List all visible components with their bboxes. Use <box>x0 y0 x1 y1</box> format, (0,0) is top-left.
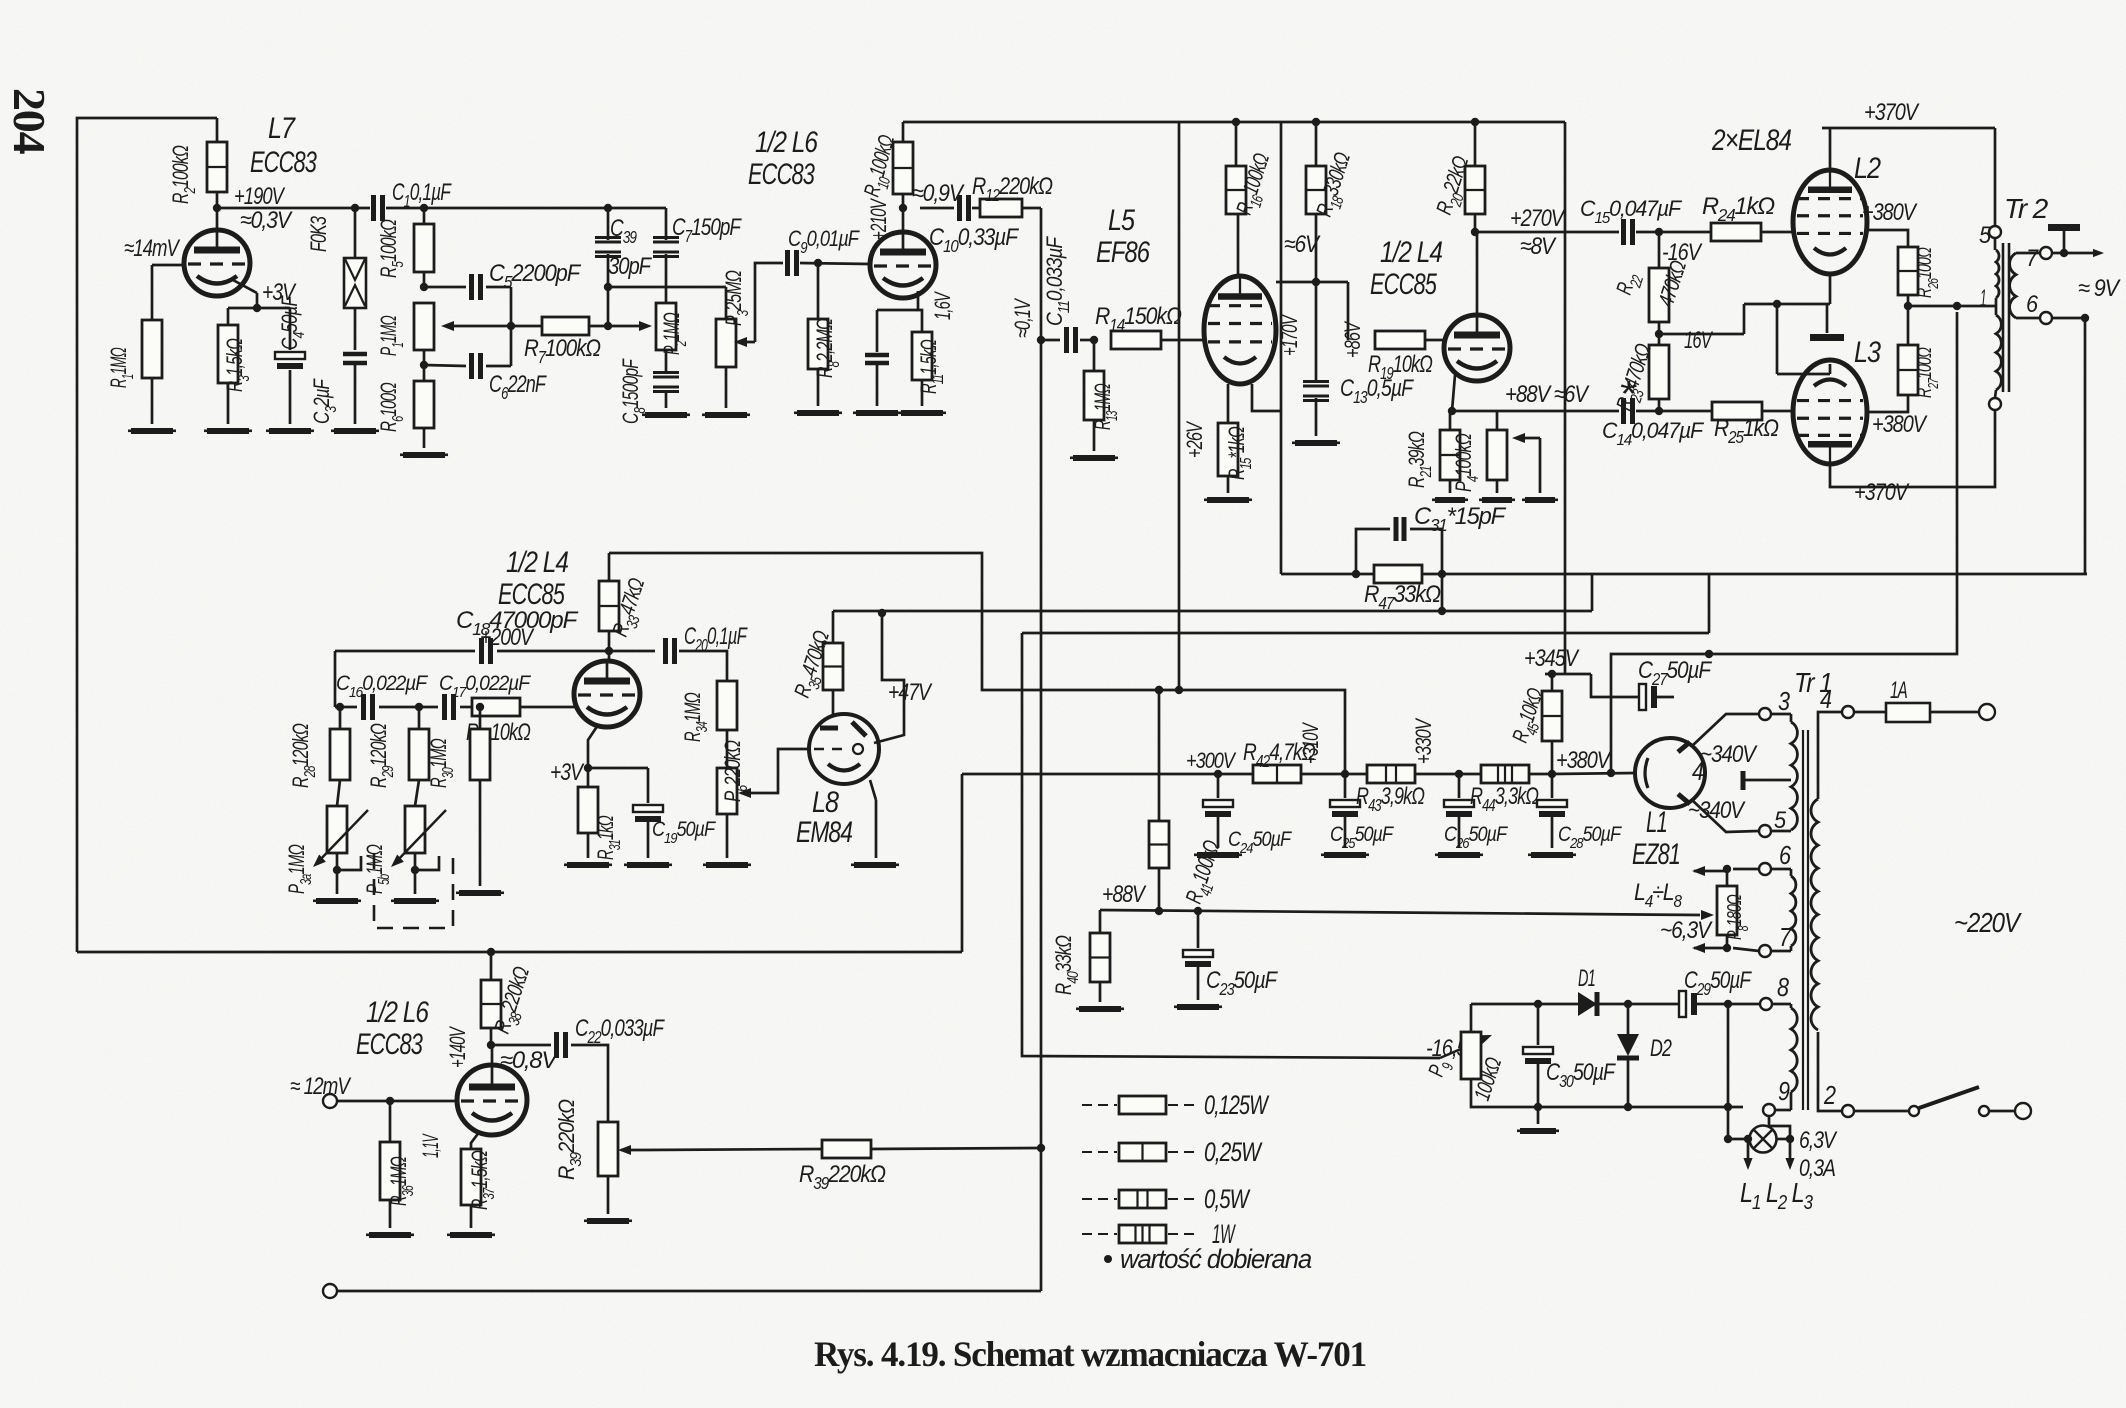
capacitor C7 <box>653 208 742 303</box>
legend 0,25W <box>1082 1137 1263 1167</box>
resistor R36 <box>380 1101 417 1228</box>
tube L4a <box>574 651 640 727</box>
svg-text:0,25W: 0,25W <box>1204 1137 1263 1167</box>
svg-text:3: 3 <box>1778 686 1790 716</box>
ground R31 <box>564 862 612 868</box>
svg-text:+270V: +270V <box>1510 205 1566 232</box>
svg-text:30pF: 30pF <box>608 253 652 280</box>
label L5 EF86 <box>1096 204 1150 269</box>
resistor R18 <box>1306 122 1361 286</box>
label 1/2L4 ECC85 mid <box>498 546 568 611</box>
resistor R39 series <box>799 1140 1041 1193</box>
terminal mains top <box>1979 704 1995 720</box>
svg-text:0,125W: 0,125W <box>1204 1090 1270 1120</box>
wire cathode L4a <box>550 725 598 786</box>
wire EF86 anode <box>1237 214 1240 276</box>
resistor R40 <box>1051 881 1147 1002</box>
ground P4 <box>1479 497 1558 503</box>
wire cathode line <box>1450 410 1619 413</box>
svg-text:≈0,1V: ≈0,1V <box>1010 297 1035 338</box>
capacitor C3 <box>309 308 367 424</box>
svg-text:1/2 L6: 1/2 L6 <box>366 996 429 1029</box>
capacitor C39 <box>595 208 652 291</box>
node +380V <box>1548 747 1612 778</box>
capacitor C10 <box>920 195 1019 256</box>
ground R21 <box>1432 497 1468 503</box>
wire left bus <box>77 118 217 952</box>
svg-text:+86V: +86V <box>1340 320 1365 358</box>
svg-text:204: 204 <box>4 88 55 155</box>
capacitor C25 <box>1330 774 1394 852</box>
svg-text:~340V: ~340V <box>1688 797 1746 824</box>
node +270V <box>1471 205 1566 260</box>
ground R37 <box>447 1232 495 1238</box>
label 1/2 L6 <box>748 126 818 191</box>
diode D1 <box>1578 965 1679 1016</box>
capacitor C17 <box>439 672 531 720</box>
capacitor C4 <box>275 295 308 424</box>
capacitor cathode bypass <box>865 310 889 406</box>
resistor R33 <box>599 553 655 651</box>
ground P6 <box>703 814 751 868</box>
wire -16.5V <box>1022 633 1494 1062</box>
ground C24 <box>1194 852 1242 858</box>
input terminal <box>290 1073 457 1108</box>
capacitor C20 <box>609 623 748 681</box>
capacitor C16 <box>336 672 438 720</box>
svg-text:+380V: +380V <box>1556 747 1612 774</box>
label L8 EM84 <box>796 786 852 849</box>
center tap 4 <box>1692 756 1791 790</box>
resistor R28 <box>288 707 350 788</box>
resistor R16 <box>1226 122 1280 219</box>
legend 0,125W <box>1082 1090 1270 1120</box>
legend 0,5W <box>1082 1184 1251 1214</box>
svg-text:2: 2 <box>1823 1080 1836 1110</box>
svg-text:8: 8 <box>1777 972 1789 1002</box>
svg-text:16V: 16V <box>1684 327 1713 354</box>
resistor R44 <box>1470 765 1539 815</box>
wire P9 top <box>1471 1000 1578 1032</box>
capacitor C26 <box>1444 774 1508 852</box>
svg-text:≈0,3V: ≈0,3V <box>240 207 293 234</box>
potentiometer P4 <box>1451 411 1540 493</box>
svg-text:+300V: +300V <box>1186 748 1237 773</box>
svg-text:≈14mV: ≈14mV <box>124 235 180 262</box>
transformer Tr2 <box>1979 193 2049 410</box>
resistor R10 <box>859 122 913 208</box>
Tr1 winding 8-9 <box>1772 1004 1797 1110</box>
resistor R12 <box>972 173 1053 217</box>
resistor R41 <box>1149 686 1230 915</box>
potentiometer P3a <box>284 780 368 894</box>
node +190V <box>213 183 293 234</box>
input common terminal <box>323 1284 1041 1298</box>
wire 611 line <box>833 574 1592 617</box>
output top <box>2048 224 2104 257</box>
terminal 6 <box>1733 840 1791 875</box>
svg-text:D2: D2 <box>1650 1035 1672 1062</box>
svg-text:+210V: +210V <box>866 198 891 240</box>
terminal 8 <box>1759 972 1789 1010</box>
lamp arrows <box>1743 1135 1794 1170</box>
Tr1 HT winding <box>1791 714 1797 830</box>
wire plate bus L7 <box>217 204 370 212</box>
ground R36 <box>366 1232 414 1238</box>
resistor R11 <box>912 332 947 406</box>
ground R8 <box>794 410 842 416</box>
wire tall bus 1179 <box>1178 122 1181 690</box>
Tr2 secondary <box>2010 245 2052 324</box>
resistor R42 <box>1243 739 1316 783</box>
capacitor C30 <box>1523 1004 1616 1107</box>
resistor R22 <box>1611 232 1703 322</box>
ground C13 <box>1292 440 1340 446</box>
ground C30 <box>1517 1107 1559 1134</box>
capacitor C29 <box>1679 967 1759 1107</box>
wire L2 plate top <box>1822 99 1995 170</box>
svg-text:+370V: +370V <box>1864 99 1920 126</box>
heater arrows L4-L8 <box>1634 866 1727 953</box>
capacitor C27 <box>1591 657 1712 710</box>
wire bias bottom <box>1471 1079 1743 1111</box>
svg-text:+26V: +26V <box>1182 420 1207 458</box>
resistor R8 <box>808 259 843 406</box>
potentiometer P9 <box>1423 1032 1506 1104</box>
capacitor C1 <box>374 179 452 221</box>
terminal 4 right <box>1820 684 1854 718</box>
node 16V <box>1655 304 1744 354</box>
wire CT <box>1908 302 1996 310</box>
wire EF86 g3 feedback <box>1252 122 1281 574</box>
wire +47V target <box>874 613 933 743</box>
terminal 3 <box>1759 686 1791 720</box>
label 1/2L4 ECC85 <box>1370 236 1442 301</box>
ground R3 <box>204 428 252 434</box>
label 1/2 L6 bottom <box>356 996 429 1061</box>
terminal 7 <box>1733 922 1792 957</box>
svg-text:≈8V: ≈8V <box>1520 233 1557 260</box>
top bus 122 <box>903 118 1565 126</box>
wire L3 screen <box>1867 395 1928 438</box>
svg-text:2×EL84: 2×EL84 <box>1711 124 1791 157</box>
capacitor C8 <box>618 350 679 424</box>
svg-text:+380V: +380V <box>1872 411 1928 438</box>
potentiometer P3 <box>716 263 783 408</box>
node below P1 <box>420 350 466 381</box>
wire Tr2 CT path <box>1607 312 1957 777</box>
capacitor C5 <box>472 260 582 300</box>
lamp <box>1724 1107 1794 1153</box>
wire C16 branch <box>335 651 357 711</box>
wire cathode L6a <box>877 291 955 332</box>
capacitor C19 <box>588 768 716 858</box>
potentiometer R39 <box>554 1100 644 1214</box>
svg-text:≈0,8V: ≈0,8V <box>500 1047 559 1074</box>
svg-text:~340V: ~340V <box>1700 741 1758 768</box>
label 340V lower <box>1688 797 1746 824</box>
label 220V <box>1954 907 2022 938</box>
capacitor C9 <box>788 226 871 276</box>
resistor R29 <box>366 707 429 788</box>
svg-text:ECC83: ECC83 <box>250 146 317 179</box>
tube L5 EF86 <box>1204 276 1276 384</box>
wire EF86 cathode <box>1227 384 1230 423</box>
tube L6a <box>870 208 936 298</box>
resistor R31 <box>578 768 624 860</box>
legend 1W <box>1082 1219 1236 1249</box>
bus +300V <box>962 774 1552 952</box>
ground C8 <box>642 412 690 418</box>
dashed selector box <box>374 853 453 928</box>
node +210V <box>866 180 965 240</box>
svg-text:L3: L3 <box>1854 336 1881 369</box>
wire L2 cathode <box>1744 274 1830 308</box>
label 340V upper <box>1700 741 1758 768</box>
svg-text:+88V ≈6V: +88V ≈6V <box>1505 381 1590 408</box>
potentiometer P8 <box>1717 865 1752 952</box>
svg-text:L8: L8 <box>812 786 839 819</box>
wire 6.3V heater line <box>1100 910 1714 920</box>
label lamp <box>1740 1127 1838 1214</box>
svg-text:wartość dobierana: wartość dobierana <box>1120 1244 1312 1274</box>
svg-text:EF86: EF86 <box>1096 236 1150 269</box>
svg-text:+140V: +140V <box>445 1026 470 1068</box>
svg-text:+345V: +345V <box>1524 645 1580 672</box>
resistor R38 <box>481 948 540 1045</box>
node +300V <box>1186 748 1237 778</box>
wire C5 drop <box>507 287 515 366</box>
svg-text:4: 4 <box>1820 684 1832 714</box>
wire L2 screen <box>1862 199 1918 247</box>
Tr1 primary winding <box>1811 712 1842 1111</box>
ground R13 <box>1070 455 1118 461</box>
resistor R30 <box>426 703 490 886</box>
svg-text:+190V: +190V <box>234 183 285 210</box>
resistor R14 <box>1095 303 1204 349</box>
label +140V <box>445 1026 470 1068</box>
potentiometer P1 <box>376 303 511 356</box>
svg-text:9: 9 <box>1778 1076 1790 1106</box>
wire feedback 574 <box>1281 570 2087 578</box>
capacitor C22 <box>491 1015 665 1122</box>
legend note <box>1104 1244 1312 1274</box>
resistor R6 <box>376 381 434 448</box>
ground R6 <box>400 452 448 458</box>
resistor R1 <box>106 320 162 424</box>
transformer Tr1 core <box>1794 667 1832 1110</box>
svg-text:+330V: +330V <box>1411 717 1436 764</box>
node +330V <box>1411 717 1463 778</box>
resistor R2 <box>168 118 227 208</box>
ground C4 <box>266 428 314 434</box>
svg-text:5: 5 <box>1979 222 1992 249</box>
resistor R32 <box>466 698 576 751</box>
tube L3 <box>1793 336 1881 464</box>
resistor R35 <box>789 611 843 716</box>
label 14mV <box>124 235 180 262</box>
tube L2 <box>1793 152 1881 274</box>
resistor R15 <box>1182 420 1255 493</box>
svg-text:ECC83: ECC83 <box>356 1028 423 1061</box>
label +88V <box>1505 373 1637 414</box>
resistor R3 <box>218 308 253 424</box>
capacitor C28 <box>1537 774 1622 852</box>
wire +345V <box>1524 122 1591 674</box>
svg-text:1A: 1A <box>1890 677 1907 704</box>
svg-text:~6,3V: ~6,3V <box>1660 917 1713 944</box>
ground P3a <box>313 898 361 904</box>
tube L7 <box>184 208 250 296</box>
wire heater bus bottom <box>77 951 962 954</box>
ground C25 <box>1321 852 1369 858</box>
ground bypass <box>853 410 901 416</box>
wire screen 6V <box>1276 231 1348 282</box>
wire R33 top feed <box>609 553 1345 774</box>
resistor R19 <box>1340 282 1443 383</box>
capacitor C15 <box>1580 196 1711 245</box>
label L1 EZ81 <box>1632 806 1680 871</box>
capacitor C24 <box>1203 774 1292 857</box>
capacitor C31 <box>1356 503 1507 574</box>
wire cathode L4b <box>1448 375 1456 415</box>
potentiometer P2 <box>608 303 690 355</box>
svg-text:L5: L5 <box>1108 204 1135 237</box>
tube L6b <box>457 1041 559 1135</box>
wire to tone stack <box>420 204 666 212</box>
terminal 5 <box>1759 807 1791 837</box>
svg-text:1/2 L4: 1/2 L4 <box>506 546 568 579</box>
terminal 2 <box>1823 1080 1854 1117</box>
capacitor C14 <box>1602 398 1712 449</box>
svg-text:F0K3: F0K3 <box>306 216 331 252</box>
wire cathode L7 <box>228 279 297 312</box>
capacitor C23 <box>1183 907 1278 1000</box>
ground P5b <box>391 898 439 904</box>
resistor R7 <box>511 317 612 367</box>
node +310V <box>1298 722 1349 779</box>
svg-text:Tr 2: Tr 2 <box>2004 193 2049 224</box>
capacitor C6 <box>472 353 547 403</box>
ground C3 <box>331 428 379 434</box>
resistor R43 <box>1356 765 1425 815</box>
potentiometer P6 <box>717 741 809 814</box>
wire plate to C15 <box>1477 231 1619 234</box>
ground R39 <box>584 1218 632 1224</box>
Tr1 heater winding 6-7 <box>1771 869 1796 951</box>
tube L8 EM84 <box>809 714 879 784</box>
capacitor C18 <box>335 607 609 664</box>
svg-text:6: 6 <box>1779 840 1791 870</box>
ground C19 <box>624 862 672 868</box>
wire 633 line <box>1022 574 1709 633</box>
node below R5 <box>420 283 466 291</box>
svg-text:D1: D1 <box>1578 965 1595 992</box>
svg-text:≈0,9V: ≈0,9V <box>912 180 965 207</box>
potentiometer P5b <box>362 780 446 894</box>
ground P3 <box>702 412 750 418</box>
capacitor C11 <box>1041 236 1098 353</box>
resistor R21 <box>1404 411 1460 493</box>
resistor R27 <box>1898 306 1942 398</box>
svg-text:0,5W: 0,5W <box>1204 1184 1251 1214</box>
label 2xEL84 <box>1711 124 1791 157</box>
ground R30 <box>456 890 504 896</box>
tube L1 EZ81 <box>1635 714 1758 832</box>
wire cathode link <box>1777 304 1830 374</box>
resistor R25 <box>1712 402 1793 447</box>
resistor R37 <box>461 1149 498 1228</box>
resistor R13 <box>1084 340 1121 451</box>
svg-text:1/2 L6: 1/2 L6 <box>755 126 818 159</box>
svg-text:≈6V: ≈6V <box>1284 231 1321 258</box>
terminal mains bottom <box>2015 1103 2031 1119</box>
svg-text:+310V: +310V <box>1298 722 1323 764</box>
svg-text:0,3A: 0,3A <box>1799 1155 1835 1182</box>
ground EM84 <box>851 862 899 868</box>
switch mains <box>1854 1087 2014 1116</box>
wire EZ81 cathode <box>1552 773 1635 774</box>
resistor R23 <box>1611 341 1669 416</box>
svg-text:Rys. 4.19. Schemat wzmacniacza: Rys. 4.19. Schemat wzmacniacza W-701 <box>814 1334 1366 1374</box>
svg-text:ECC83: ECC83 <box>748 158 815 191</box>
svg-text:ECC85: ECC85 <box>1370 268 1437 301</box>
svg-text:1,6V: 1,6V <box>930 291 955 320</box>
svg-text:+380V: +380V <box>1862 199 1918 226</box>
resistor R45 <box>1507 670 1562 774</box>
ground C23 <box>1174 1004 1222 1010</box>
resistor R20 <box>1431 122 1485 232</box>
resistor R47 <box>1364 565 1441 613</box>
wire cathode L6b <box>418 1131 480 1158</box>
ground C26 <box>1435 852 1483 858</box>
resistor R26 <box>1898 247 1942 310</box>
wire C39 to P3 <box>608 287 726 326</box>
svg-text:L2: L2 <box>1854 152 1881 185</box>
tube L4b <box>1444 232 1510 381</box>
svg-text:L7: L7 <box>268 112 296 145</box>
svg-text:L1: L1 <box>1646 806 1667 839</box>
resistor R24 <box>1702 193 1793 241</box>
fuse F0K3 <box>306 208 366 308</box>
wire EM84 cathode <box>870 780 876 858</box>
resistor R34 <box>680 681 737 768</box>
svg-text:+3V: +3V <box>550 759 585 786</box>
svg-text:1/2 L4: 1/2 L4 <box>1380 236 1442 269</box>
wire Tr2 top <box>1994 128 1997 226</box>
svg-text:1: 1 <box>1980 285 1986 312</box>
svg-text:~220V: ~220V <box>1954 907 2022 938</box>
cathode ground bar <box>1810 304 1844 341</box>
fuse 1A <box>1854 677 1978 722</box>
svg-text:6: 6 <box>2026 291 2039 318</box>
svg-text:6,3V: 6,3V <box>1799 1127 1838 1154</box>
diode D2 <box>1617 1004 1672 1107</box>
svg-text:EZ81: EZ81 <box>1632 838 1680 871</box>
ground R1 <box>128 428 176 434</box>
ground R11 <box>898 410 946 416</box>
label L7 <box>250 112 317 179</box>
svg-text:+370V: +370V <box>1854 479 1910 506</box>
node +200V <box>480 624 613 655</box>
svg-text:≈ 9V: ≈ 9V <box>2078 275 2121 302</box>
ground R15 <box>1204 497 1252 503</box>
feedback bus 0.1V <box>1010 208 1045 1291</box>
svg-text:≈ 12mV: ≈ 12mV <box>290 1073 351 1100</box>
output 9V <box>2052 275 2121 574</box>
svg-text:+88V: +88V <box>1102 881 1147 908</box>
svg-text:+47V: +47V <box>888 679 933 706</box>
